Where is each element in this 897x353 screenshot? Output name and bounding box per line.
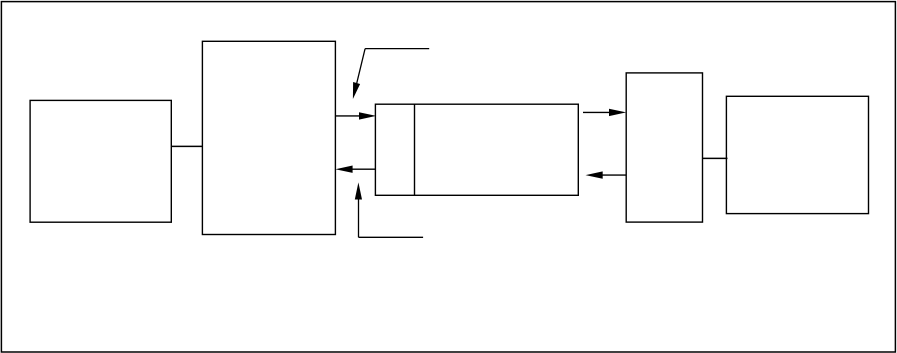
divider in B3	[414, 104, 416, 195]
block B2 (tall box)	[202, 41, 335, 234]
wire B4-B5	[703, 157, 728, 159]
block B5 (right box)	[726, 96, 868, 213]
arrow B4 to B3	[586, 171, 627, 178]
leader bottom	[355, 182, 423, 237]
leader top	[353, 49, 429, 99]
arrow B2 to B3	[335, 112, 376, 119]
block B1 (left box)	[30, 100, 171, 222]
block B4 (narrow tall box)	[626, 73, 702, 222]
wire B1-B2	[171, 145, 202, 147]
arrow B3 to B4	[583, 109, 626, 116]
block B3 (wide box)	[375, 104, 578, 195]
arrow B3 to B2	[335, 166, 375, 173]
